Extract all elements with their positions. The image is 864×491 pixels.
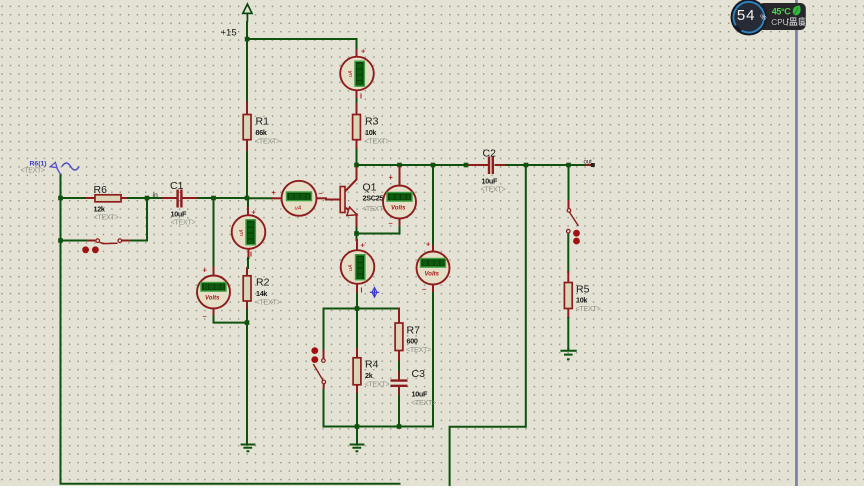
wire: R5 bottom to ground: [567, 318, 569, 349]
wire: R2 bottom to ground column: [246, 310, 248, 443]
svg-text:R7: R7: [407, 325, 421, 337]
wire: bottom row R4/C3 net: [324, 291, 434, 427]
resistor R3: [353, 115, 390, 146]
power terminal +15 arrow: [243, 4, 252, 22]
wire: feedback net from row B down and to bottom edge: [450, 167, 526, 486]
voltmeter V2 (base voltage): [197, 266, 230, 321]
wire: V3 bottom pin: [432, 285, 434, 292]
svg-text:–: –: [422, 285, 426, 294]
wire: V2 bottom red pin: [213, 308, 215, 316]
node junction row C at R4: [355, 306, 360, 311]
wire: A2 bottom pin: [356, 284, 358, 295]
svg-text:<TEXT>: <TEXT>: [365, 380, 390, 389]
wire: SW2 bottom to bottom row: [323, 390, 325, 427]
svg-text:R1: R1: [256, 116, 270, 128]
wire: V2 top red pin: [213, 267, 215, 276]
wire: input source drop line: [61, 175, 400, 484]
svg-text:<TEXT>: <TEXT>: [406, 345, 431, 354]
wire: V2 top lead: [213, 200, 215, 267]
wire: R3 bottom to collector row: [356, 150, 358, 165]
svg-text:–: –: [203, 312, 207, 321]
node junction base node at V2: [211, 196, 216, 201]
wire: R7 bottom pin to C3: [398, 351, 400, 363]
wire: A1 top pin from row A: [356, 50, 358, 57]
svg-text:<TEXT>: <TEXT>: [94, 213, 119, 222]
svg-text:<TEXT>: <TEXT>: [21, 168, 45, 175]
svg-text:<TEXT>: <TEXT>: [481, 185, 506, 194]
resistor R7: [395, 323, 431, 354]
resistor R4: [353, 358, 389, 389]
blue origin crosshair marker: [370, 288, 380, 298]
switch SW1 (parallel with R6): [82, 239, 121, 253]
node: out terminal pin: [591, 163, 595, 167]
wire: A4 left red pin: [272, 197, 282, 199]
node junction base row at R1 column: [245, 196, 250, 201]
svg-text:uA: uA: [348, 70, 354, 77]
ground below R5: [560, 349, 576, 360]
node junction emitter / V1 return: [354, 231, 359, 236]
svg-text:45°C: 45°C: [772, 7, 791, 17]
svg-text:R6: R6: [94, 184, 108, 196]
svg-text:out: out: [584, 160, 593, 166]
node junction bottom row at R4/ground: [355, 424, 360, 429]
wire: R6 right red pin: [121, 197, 128, 199]
wire: red pin into R1 top: [246, 102, 248, 115]
svg-text:%: %: [760, 14, 766, 21]
svg-text:Volts: Volts: [425, 272, 440, 278]
wire: C1 left red pin: [163, 197, 177, 199]
wire: R2 top red pin: [246, 268, 248, 276]
CJK glyph wen (temperature): [786, 18, 797, 26]
wire: SW2 top red stub: [323, 351, 325, 359]
svg-text:<TEXT>: <TEXT>: [256, 298, 281, 307]
wire: V1 top pin: [399, 167, 401, 186]
wire: C3 bottom plate red pin: [398, 387, 400, 396]
svg-text:CPU: CPU: [771, 18, 788, 27]
CPU temperature overlay badge: [728, 0, 806, 38]
wire: A3 to R2: [247, 258, 249, 268]
wire: A3 top red pin: [247, 208, 249, 216]
wire: SW1 row left segment: [61, 240, 89, 242]
resistor R6: [94, 184, 122, 222]
wire: +15 rail top row: [247, 22, 357, 102]
svg-text:in: in: [153, 192, 159, 199]
svg-text:R2: R2: [256, 277, 270, 289]
wire: Q1 collector pin diagonal: [345, 168, 357, 192]
svg-text:I: I: [250, 252, 252, 259]
wire: red pin into C2 left plate: [466, 164, 488, 166]
svg-text:C1: C1: [170, 180, 184, 192]
svg-text:<TEXT>: <TEXT>: [411, 398, 436, 407]
wire: A3 top pin from base row: [247, 200, 249, 208]
signal source pin triangle: [50, 162, 57, 167]
node junction row B before C2: [464, 163, 469, 168]
svg-text:+: +: [252, 208, 257, 217]
wire: SW3 bottom to R5: [567, 233, 569, 272]
wire: base node to R1 column: [214, 197, 248, 199]
svg-text:+15: +15: [221, 28, 237, 39]
wire: A1 bottom pin to R3: [356, 91, 358, 100]
wire: base row to A4: [247, 197, 272, 199]
wire: R4 top red pin: [356, 349, 358, 358]
switch SW2 (bottom left of R4 network): [311, 347, 325, 384]
svg-text:<TEXT>: <TEXT>: [255, 137, 280, 146]
ammeter A2 (emitter current): [341, 241, 375, 295]
voltmeter V1 (collector-emitter): [383, 173, 416, 228]
wire: C3 top plate red pin: [398, 372, 400, 380]
capacitor C2: [481, 148, 506, 194]
svg-text:uA: uA: [348, 264, 354, 271]
svg-text:Q1: Q1: [363, 182, 377, 194]
svg-text:R3: R3: [365, 116, 379, 128]
capacitor C1: [170, 180, 196, 227]
wire: emitter to A2: [356, 228, 358, 240]
svg-text:C3: C3: [412, 368, 426, 380]
svg-text:–: –: [319, 188, 323, 197]
svg-text:Volts: Volts: [391, 206, 406, 212]
svg-text:–: –: [389, 219, 393, 228]
wire: R6 left red pin: [87, 197, 95, 199]
svg-text:<TEXT>: <TEXT>: [576, 304, 601, 313]
wire: red pin into R3 top: [356, 104, 358, 115]
ground below R4: [350, 428, 365, 451]
wire: R7-C3 green gap: [398, 362, 400, 372]
wire: R4 bottom to bottom row: [356, 394, 358, 427]
ammeter A3 (above R2): [232, 208, 266, 259]
wire: in node to C1 left red pin: [147, 197, 163, 199]
svg-text:R4: R4: [365, 359, 379, 371]
wire: row C horizontal (emitter network): [324, 308, 400, 310]
wire: row C left leg down to SW2: [323, 309, 325, 352]
signal source sine squiggle: [62, 163, 79, 170]
wire: A2 top pin: [356, 240, 358, 251]
node junction at in node: [145, 196, 150, 201]
wire: red stub to out terminal pin: [586, 164, 593, 166]
wire: C3 to bottom row: [398, 396, 400, 427]
wire: R2 bottom red pin: [246, 301, 248, 311]
ground below R2 column: [241, 442, 256, 451]
leaf icon: [793, 6, 801, 16]
svg-text:C2: C2: [483, 148, 497, 160]
svg-text:+: +: [389, 173, 394, 182]
wire: V1 bottom to emitter node: [357, 227, 400, 234]
svg-text:+: +: [361, 47, 366, 56]
svg-text:54: 54: [737, 7, 756, 24]
svg-text:+: +: [361, 241, 366, 250]
wire: red pin C2 right plate out: [496, 164, 508, 166]
capacitor C3: [391, 368, 437, 407]
svg-text:uA: uA: [295, 206, 302, 212]
wire: R6 to in node: [128, 197, 147, 199]
node junction R2 bottom / V2 return: [245, 320, 250, 325]
wire: R6 row from input column: [61, 197, 88, 199]
wire: collector output row y=165: [357, 164, 467, 166]
wire: R5 branch down from row B: [568, 167, 570, 201]
wire: row y=165 from C2 to out terminal: [507, 164, 586, 166]
wire: R3 bottom pin: [356, 140, 358, 151]
wire: green gap A1-R3: [356, 99, 358, 104]
wire: V3 branch from row B: [432, 167, 434, 244]
wire: R5 top red pin: [567, 272, 569, 283]
svg-text:+: +: [203, 266, 208, 275]
node junction at +15 rail / row A: [245, 37, 250, 42]
node junction row B at feedback branch: [524, 163, 529, 168]
node junction input column at R6 row: [58, 196, 63, 201]
wire: R1 bottom to base row: [246, 152, 248, 198]
svg-text:<TEXT>: <TEXT>: [171, 218, 196, 227]
node junction row B at V3 branch: [431, 163, 436, 168]
voltmeter V3 (output): [417, 240, 450, 294]
node junction bottom row at C3: [397, 424, 402, 429]
wire: A2 bottom to node row C: [356, 294, 358, 309]
svg-text:<TEXT>: <TEXT>: [365, 137, 390, 146]
wire: SW1 left red pin: [88, 240, 96, 242]
svg-text:+: +: [272, 188, 277, 197]
wire: Q1 emitter vertical below arrow: [356, 214, 358, 228]
CJK glyph du (degree): [799, 17, 805, 25]
wire: R1 bottom pin down to row B: [246, 140, 248, 153]
wire: A4 right red pin to Q1 base: [317, 197, 327, 199]
svg-text:I: I: [361, 288, 363, 295]
resistor R5: [564, 283, 600, 314]
wire: SW1 right red pin: [122, 240, 129, 242]
wire: V2 return to R2 bottom: [214, 316, 248, 323]
switch SW3 (above R5): [567, 209, 580, 245]
resistor R1: [243, 115, 280, 146]
wire: R4 bottom red pin: [356, 385, 358, 394]
wire: SW2 bottom red stub: [323, 384, 325, 391]
wire: R4 top lead: [356, 310, 358, 349]
wire: into Q1 base bar: [326, 199, 340, 201]
svg-text:uA: uA: [239, 229, 245, 236]
wire: A3 bottom red pin: [248, 249, 250, 259]
node junction input column at SW1 row: [58, 238, 63, 243]
wire: in node down to SW1 row: [129, 198, 147, 241]
svg-text:R6(1): R6(1): [30, 161, 47, 168]
wire: C1 to base node: [198, 197, 214, 199]
node junction row B at collector: [354, 163, 359, 168]
svg-text:R5: R5: [576, 284, 590, 296]
wire: R7 top red pin from row C: [398, 309, 400, 324]
transistor Q1 2SC2547: [340, 182, 390, 216]
svg-text:Volts: Volts: [205, 296, 220, 302]
wire: V3 top pin: [432, 244, 434, 252]
vertical slate divider line at right: [795, 0, 798, 486]
wire: R5 bottom red pin: [567, 309, 569, 319]
ammeter A4 (base current, horizontal): [272, 181, 323, 216]
resistor R2: [243, 276, 280, 307]
svg-text:I: I: [360, 94, 362, 101]
ammeter A1 (collector current, top): [340, 47, 374, 101]
wire: SW3 top red stub: [568, 201, 570, 209]
node junction row B at R5 branch: [566, 163, 571, 168]
node junction row B at V1: [397, 163, 402, 168]
svg-text:+: +: [426, 240, 431, 249]
wire: C1 right red pin: [182, 197, 198, 199]
wire: V1 bottom pin: [399, 218, 401, 227]
